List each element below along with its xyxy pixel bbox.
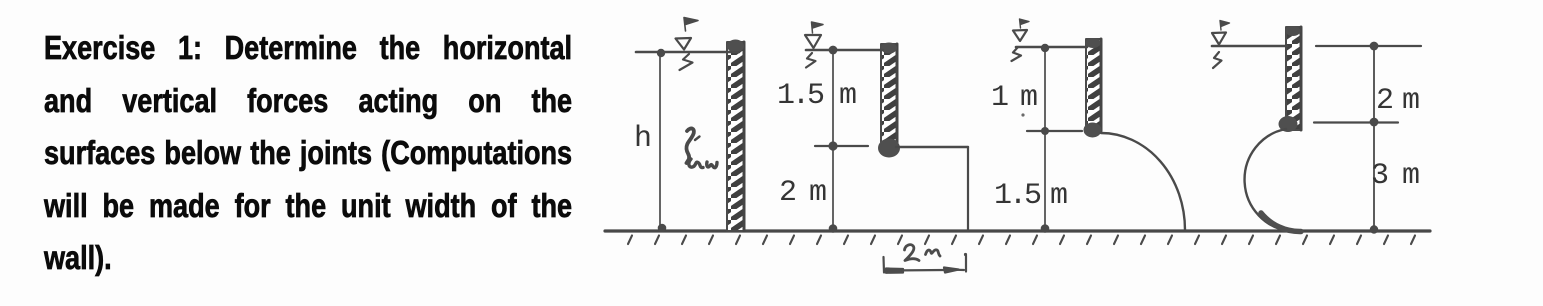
water surface line 1 (636, 51, 739, 54)
dimension node top 1 (657, 49, 665, 57)
svg-text:2: 2 (1376, 84, 1394, 118)
exercise text block (44, 22, 572, 285)
stray dot (1021, 113, 1024, 116)
scribble gamma_sw (686, 128, 717, 167)
dim mid line 4 (1314, 121, 1398, 123)
dimension line 3 vertical (1044, 47, 1046, 230)
svg-text:m: m (839, 79, 857, 113)
water surface line 4 (1212, 45, 1287, 48)
svg-text:1: 1 (991, 81, 1009, 115)
dim vertical line 4 (1373, 46, 1375, 232)
water surface line 2 (806, 49, 883, 52)
handwritten 2m dimension below (884, 245, 968, 273)
step right vertical line (967, 147, 969, 231)
dimension node bottom 3 (1041, 224, 1050, 233)
dimension node top 4 (1370, 42, 1379, 51)
dimension node top 3 (1041, 44, 1049, 52)
wall 2 (stepped wall) (878, 43, 900, 158)
svg-text:m: m (809, 176, 827, 210)
quarter-circle surface 3 (1101, 133, 1185, 230)
svg-text:m: m (1402, 159, 1420, 193)
water surface symbol 1 (flag + nabla + squiggle) (676, 18, 699, 71)
water surface symbol 3 (1012, 19, 1030, 61)
wall 1 (tall wall, height h) (727, 40, 744, 232)
thick base arc 4 (1261, 213, 1301, 232)
dimension node bottom 4 (1370, 225, 1378, 233)
svg-text:3: 3 (1371, 159, 1389, 193)
water surface symbol 4 (1212, 21, 1230, 69)
svg-text:m: m (1020, 81, 1038, 115)
dimension node mid 3 (1041, 127, 1049, 135)
wall 4 (1279, 26, 1302, 132)
tick 1m mark (1027, 130, 1082, 132)
svg-text:m: m (1402, 84, 1420, 118)
svg-text:2: 2 (779, 176, 797, 210)
dim top line 4 (1316, 45, 1421, 47)
water surface symbol 2 (805, 22, 823, 68)
dimension node mid 2 (828, 141, 837, 150)
water surface line 3 (1016, 46, 1087, 49)
svg-text:1.5: 1.5 (994, 179, 1041, 213)
dimension node mid 4 (1370, 118, 1379, 127)
dimension line 2 vertical (832, 50, 834, 230)
tick 1.5m mark (815, 145, 868, 147)
svg-text:h: h (634, 122, 652, 156)
dimension node bottom 2 (829, 224, 838, 233)
dimension node bottom 1 (658, 224, 667, 233)
svg-text:1.5: 1.5 (777, 79, 824, 113)
dimension node top 2 (829, 46, 838, 55)
ground line (605, 229, 1430, 232)
ground hatching (628, 236, 1415, 245)
step horizontal line (896, 146, 968, 148)
wall 3 (1084, 38, 1102, 138)
svg-text:m: m (1050, 179, 1068, 213)
semicircular surface 4 (1245, 129, 1291, 231)
dimension line h (659, 52, 661, 230)
